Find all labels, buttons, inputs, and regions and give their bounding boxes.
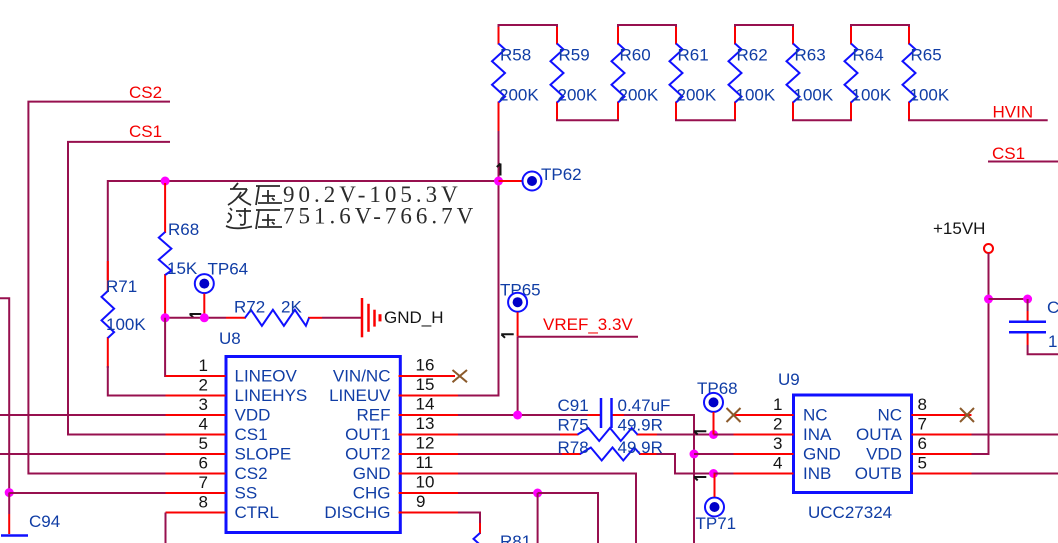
U8 pin 11: [399, 453, 459, 474]
wire DISCHG to R81: [458, 513, 480, 524]
svg-text:R60: R60: [620, 46, 651, 65]
svg-text:R68: R68: [168, 220, 199, 239]
svg-text:GND: GND: [353, 464, 391, 483]
svg-text:R71: R71: [106, 277, 137, 296]
svg-text:TP64: TP64: [208, 260, 249, 279]
svg-text:100K: 100K: [794, 86, 834, 105]
wire long horizontal node at y181: [108, 181, 499, 280]
U9 pin 4: [734, 454, 794, 474]
svg-text:16: 16: [416, 356, 435, 375]
svg-text:VDD: VDD: [235, 406, 271, 425]
svg-text:REF: REF: [357, 406, 391, 425]
svg-text:14: 14: [416, 395, 435, 414]
svg-text:2K: 2K: [281, 298, 302, 317]
svg-text:49.9R: 49.9R: [618, 416, 663, 435]
svg-text:LINEUV: LINEUV: [329, 386, 391, 405]
wire VDD up to +15VH: [972, 299, 989, 454]
U9 pin 6: [912, 434, 972, 454]
svg-text:VIN/NC: VIN/NC: [333, 367, 391, 386]
wire R75 to INA: [657, 434, 714, 436]
svg-text:NC: NC: [877, 406, 902, 425]
U8 pin 4: [166, 415, 226, 435]
wire SS net from left edge: [0, 298, 9, 492]
wire VDD from left edge: [0, 414, 166, 416]
net label CS1 left: [68, 122, 170, 435]
svg-text:200K: 200K: [677, 86, 717, 105]
svg-text:CS2: CS2: [129, 83, 162, 102]
wire CTRL down: [165, 513, 167, 543]
CJK annotation line1: [228, 182, 462, 207]
svg-text:CTRL: CTRL: [235, 503, 279, 522]
svg-text:OUTA: OUTA: [856, 425, 903, 444]
resistor R59: [551, 27, 598, 119]
power +15VH: [933, 219, 993, 299]
svg-text:15: 15: [416, 375, 435, 394]
U8 pin 2: [166, 376, 226, 396]
svg-text:200K: 200K: [499, 86, 539, 105]
svg-text:0.47uF: 0.47uF: [618, 396, 671, 415]
svg-text:INA: INA: [803, 425, 832, 444]
wire C91 to vertical: [624, 415, 694, 543]
resistor R68: [159, 183, 199, 316]
svg-text:R78: R78: [558, 438, 589, 457]
svg-text:5: 5: [918, 454, 927, 473]
wire top pair R62-R63: [735, 25, 793, 44]
wire SS down to C94: [8, 493, 10, 514]
chip U9: [778, 370, 912, 522]
power ground GND_H: [362, 298, 444, 337]
U9 pin 3: [734, 434, 794, 454]
chip U8: [219, 329, 400, 533]
svg-text:6: 6: [199, 454, 208, 473]
svg-text:100K: 100K: [910, 86, 950, 105]
svg-text:12: 12: [416, 434, 435, 453]
svg-text:13: 13: [416, 414, 435, 433]
svg-text:NC: NC: [803, 406, 828, 425]
junction GND row: [690, 450, 699, 459]
svg-text:100K: 100K: [106, 315, 146, 334]
svg-text:2: 2: [773, 415, 782, 434]
svg-text:C9: C9: [1047, 298, 1058, 317]
wire R58 bottom to node: [498, 131, 500, 181]
U8 pin 9: [399, 492, 459, 513]
svg-text:SS: SS: [235, 484, 258, 503]
svg-text:R64: R64: [853, 46, 884, 65]
resistor R63: [787, 27, 834, 119]
net label CS1 top right: [988, 144, 1058, 163]
svg-text:SLOPE: SLOPE: [235, 445, 292, 464]
svg-text:3: 3: [773, 434, 782, 453]
svg-text:LINEOV: LINEOV: [235, 367, 298, 386]
svg-text:4: 4: [199, 415, 208, 434]
wire INB into pin4: [714, 473, 734, 475]
svg-text:R65: R65: [911, 46, 942, 65]
U8 pin 3: [166, 395, 226, 415]
U9 pin 2: [734, 415, 794, 435]
wire R71 bottom to U8 pin2: [108, 366, 166, 396]
no-connect X pin16: [453, 370, 468, 382]
testpoint TP62: [497, 164, 582, 191]
svg-text:5: 5: [199, 434, 208, 453]
U9 pin 1: [734, 395, 794, 415]
net label CS2 left: [28, 83, 170, 474]
svg-text:R59: R59: [559, 46, 590, 65]
svg-text:R81: R81: [500, 532, 531, 543]
wire SS to pin7: [9, 492, 165, 494]
no-connect X U9 pin8: [960, 408, 974, 422]
svg-text:R75: R75: [558, 416, 589, 435]
junction R68 top: [161, 177, 170, 186]
U8 pin 15: [399, 375, 459, 396]
U9 pin 7: [912, 415, 972, 435]
junction TP71/INB: [709, 469, 718, 478]
svg-text:U9: U9: [778, 370, 800, 389]
U8 pin 6: [166, 454, 226, 474]
svg-text:15K: 15K: [167, 259, 198, 278]
svg-text:GND: GND: [803, 445, 841, 464]
svg-text:CS2: CS2: [235, 464, 268, 483]
wire GND row U8 drop: [458, 474, 636, 543]
wire INA into pin2: [714, 434, 734, 436]
svg-text:1: 1: [199, 356, 208, 375]
svg-text:CHG: CHG: [353, 484, 391, 503]
wire bottom R59-R60: [557, 103, 618, 121]
testpoint TP71: [694, 474, 736, 534]
capacitor C91: [558, 396, 671, 428]
svg-text:GND_H: GND_H: [384, 308, 444, 327]
junction TP64: [200, 313, 209, 322]
wire node down to U8 pin1: [165, 318, 225, 376]
junction TP62: [494, 177, 503, 186]
junction cap branch: [1023, 295, 1032, 304]
wire cap to right edge: [1028, 345, 1058, 354]
U8 pin 5: [166, 434, 226, 454]
svg-text:200K: 200K: [558, 86, 598, 105]
junction TP68/INA: [709, 430, 718, 439]
resistor R62: [729, 27, 776, 119]
resistor R65: [903, 27, 950, 119]
svg-text:11: 11: [416, 453, 434, 472]
capacitor C94: [1, 512, 60, 536]
svg-text:8: 8: [199, 493, 208, 512]
capacitor C95: [1009, 298, 1058, 351]
wire CHG row: [458, 492, 538, 494]
svg-text:+15VH: +15VH: [933, 219, 985, 238]
junction +15VH: [984, 295, 993, 304]
svg-text:C94: C94: [29, 512, 60, 531]
wire branch to cap: [989, 298, 1028, 300]
wire bottom R61-R62: [676, 103, 735, 121]
svg-text:CS1: CS1: [992, 144, 1025, 163]
wire top pair R58-R59: [499, 25, 558, 44]
junction CHG: [533, 489, 542, 498]
wire R65 to HVIN: [909, 103, 1048, 121]
wire SLOPE from left edge: [0, 453, 166, 455]
U8 pin 12: [399, 434, 459, 455]
svg-text:7: 7: [918, 415, 927, 434]
U8 pin 10: [399, 473, 459, 494]
wire OUTA to right edge: [972, 434, 1058, 436]
wire node y318: [165, 317, 226, 319]
svg-text:UCC27324: UCC27324: [808, 503, 892, 522]
svg-text:4: 4: [773, 454, 782, 473]
resistor R71: [102, 261, 147, 368]
svg-text:100K: 100K: [736, 86, 776, 105]
testpoint TP64: [190, 260, 249, 318]
svg-text:OUT2: OUT2: [345, 445, 390, 464]
svg-text:TP62: TP62: [541, 165, 582, 184]
CJK annotation line2: [226, 204, 477, 230]
svg-text:VREF_3.3V: VREF_3.3V: [543, 315, 633, 334]
svg-text:CS1: CS1: [129, 122, 162, 141]
wire top pair R60-R61: [618, 25, 676, 44]
U8 pin 16: [399, 356, 456, 377]
svg-text:R58: R58: [500, 46, 531, 65]
wire CHG right drop: [538, 493, 598, 543]
svg-text:U8: U8: [219, 329, 241, 348]
svg-text:8: 8: [918, 395, 927, 414]
wire REF row: [458, 414, 588, 416]
svg-text:HVIN: HVIN: [993, 103, 1034, 122]
svg-text:10: 10: [416, 473, 435, 492]
svg-text:100K: 100K: [852, 86, 892, 105]
resistor R58: [492, 27, 539, 133]
svg-text:DISCHG: DISCHG: [324, 503, 390, 522]
wire CHG drop at junction: [537, 493, 539, 543]
junction R68 bottom: [161, 313, 170, 322]
svg-text:R61: R61: [678, 46, 709, 65]
no-connect X U9 pin1: [727, 408, 741, 422]
wire R72 to GND_H: [322, 317, 362, 319]
svg-text:TP71: TP71: [696, 514, 737, 533]
resistor R72: [226, 298, 322, 326]
svg-text:LINEHYS: LINEHYS: [235, 386, 308, 405]
svg-text:C91: C91: [558, 396, 589, 415]
resistor R60: [612, 27, 659, 119]
svg-text:200K: 200K: [619, 86, 659, 105]
svg-text:OUT1: OUT1: [345, 425, 390, 444]
svg-text:6: 6: [918, 434, 927, 453]
U9 pin 8: [912, 395, 972, 415]
svg-text:INB: INB: [803, 464, 831, 483]
resistor R64: [845, 27, 892, 119]
wire OUT2 row to R78: [458, 453, 562, 455]
svg-text:OUTB: OUTB: [855, 464, 902, 483]
U8 pin 7: [166, 473, 226, 493]
wire R78 jog to INB: [657, 454, 714, 474]
testpoint TP68: [694, 379, 738, 435]
resistor R61: [670, 27, 717, 119]
U9 pin 5: [912, 454, 972, 474]
svg-text:3: 3: [199, 395, 208, 414]
resistor R81: [474, 523, 532, 543]
svg-text:9: 9: [416, 492, 425, 511]
U8 pin 1: [166, 356, 226, 376]
wire top pair R64-R65: [851, 25, 909, 44]
testpoint TP65: [500, 281, 541, 338]
svg-text:R72: R72: [234, 298, 265, 317]
resistor R75: [558, 416, 663, 442]
U8 pin 13: [399, 414, 459, 435]
svg-text:1: 1: [773, 395, 782, 414]
wire GND row to pin3: [694, 453, 734, 455]
U8 pin 8: [166, 493, 226, 513]
wire VREF down to REF node: [517, 337, 519, 415]
wire OUTB to right edge: [972, 473, 1058, 475]
wire OUT1 row to R75: [458, 434, 560, 436]
junction REF/VREF: [513, 411, 522, 420]
svg-text:751.6V-766.7V: 751.6V-766.7V: [283, 204, 477, 229]
svg-text:49.9R: 49.9R: [618, 438, 663, 457]
resistor R78: [558, 438, 663, 461]
junction SS: [5, 488, 14, 497]
svg-text:7: 7: [199, 473, 208, 492]
net label VREF_3.3V: [518, 315, 638, 337]
svg-text:2: 2: [199, 376, 208, 395]
svg-text:CS1: CS1: [235, 425, 268, 444]
wire bottom R63-R64: [793, 103, 851, 121]
svg-text:VDD: VDD: [866, 445, 902, 464]
svg-text:1: 1: [1048, 332, 1057, 351]
wire node down to U8 pin15: [458, 181, 499, 396]
svg-text:R62: R62: [737, 46, 768, 65]
svg-text:R63: R63: [795, 46, 826, 65]
U8 pin 14: [399, 395, 459, 416]
